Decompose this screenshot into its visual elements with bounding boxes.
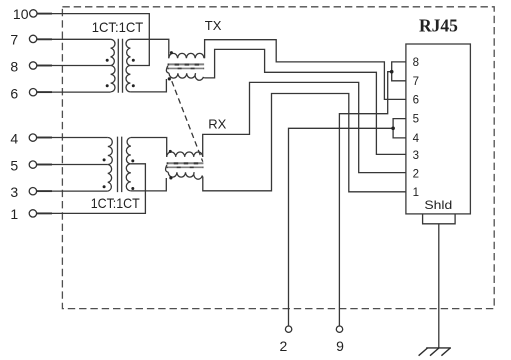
pin 3 terminal xyxy=(29,188,36,195)
svg-text:2: 2 xyxy=(280,338,288,354)
pin 10 terminal xyxy=(30,10,37,17)
wire pin4 to T2 left top xyxy=(36,137,107,139)
choke RX bottom polarity dot xyxy=(169,176,172,179)
wire TX top winding to RJ45 pin6 xyxy=(205,40,406,100)
svg-text:6: 6 xyxy=(413,95,419,107)
transformer T2 left winding xyxy=(108,138,113,192)
choke RX top polarity dot xyxy=(169,150,172,153)
svg-text:2: 2 xyxy=(413,169,419,181)
wire pin6 lead thick segment xyxy=(37,91,52,93)
svg-text:1: 1 xyxy=(10,206,18,222)
svg-text:TX: TX xyxy=(205,18,222,33)
pin 2 terminal xyxy=(285,326,291,332)
wire pin7 to T1 left top xyxy=(37,38,111,40)
transformer T1 right winding xyxy=(126,39,130,92)
choke TX core upper line xyxy=(168,63,205,65)
junction dot 4/5 bracket xyxy=(391,127,395,131)
pin 8 terminal xyxy=(29,62,36,69)
wire T1 right bottom to TX choke bottom xyxy=(130,79,166,92)
transformer T2 core xyxy=(118,137,122,193)
svg-text:8: 8 xyxy=(10,58,18,74)
transformer T2 right polarity dot lower xyxy=(131,187,134,190)
svg-text:9: 9 xyxy=(336,338,344,354)
transformer T2 left polarity dot upper xyxy=(103,158,106,161)
choke TX core lower line xyxy=(168,67,205,69)
wire pin6 to T1 left bottom xyxy=(37,91,111,93)
wire pin8 to T1 left center-tap xyxy=(37,65,111,67)
wire pin3 to T2 left bottom xyxy=(36,190,107,192)
pin 5 terminal xyxy=(29,161,36,168)
svg-text:3: 3 xyxy=(413,150,419,162)
choke RX core lower line dash xyxy=(167,166,204,168)
module dashed outline xyxy=(62,7,494,309)
svg-text:7: 7 xyxy=(413,76,419,88)
chassis ground xyxy=(419,348,451,356)
pin 7 terminal xyxy=(29,35,36,42)
RJ45 shield tab xyxy=(423,214,456,224)
wire T2 right bottom to RX choke bottom xyxy=(131,178,167,191)
wire bracket RJ45 pins 4 and 5 xyxy=(393,119,406,138)
wire T2 right top to RX choke xyxy=(131,138,167,157)
wire pin9 to RJ45 7/8 junction xyxy=(339,72,391,326)
choke TX bottom polarity dot xyxy=(168,77,171,80)
svg-text:5: 5 xyxy=(413,114,419,126)
wire pin7 lead thick segment xyxy=(37,38,52,40)
svg-text:Shld: Shld xyxy=(424,198,452,212)
pin 4 terminal xyxy=(29,134,36,141)
svg-text:8: 8 xyxy=(413,57,419,69)
svg-text:10: 10 xyxy=(13,6,29,22)
connector RJ45 body xyxy=(406,44,471,214)
wire shield to chassis ground xyxy=(438,224,440,348)
wire pin10 lead thick segment xyxy=(37,13,52,15)
svg-text:4: 4 xyxy=(10,131,18,147)
choke RX bottom winding hook xyxy=(166,165,169,172)
svg-text:7: 7 xyxy=(10,31,18,47)
choke TX bottom winding xyxy=(169,73,204,80)
svg-text:RX: RX xyxy=(208,117,226,132)
wire pin1 lead thick segment xyxy=(36,212,52,214)
junction dot 7/8 bracket xyxy=(390,70,394,74)
transformer T1 right polarity dot lower xyxy=(132,84,135,87)
wire RX bottom winding to RJ45 pin1 xyxy=(203,94,406,192)
wire pin1 to T2 right center-tap xyxy=(36,164,145,214)
wire pin2 to RJ45 4/5 junction xyxy=(289,128,394,326)
svg-text:5: 5 xyxy=(10,157,18,173)
choke TX bottom winding hook xyxy=(166,66,169,73)
svg-text:6: 6 xyxy=(10,85,18,101)
transformer T1 right polarity dot upper xyxy=(132,59,135,62)
pin 1 terminal xyxy=(29,210,36,217)
svg-text:1: 1 xyxy=(413,187,419,199)
choke TX core upper line dashes xyxy=(168,64,205,66)
choke RX core upper line dashes xyxy=(167,162,204,164)
wire RX top winding to RJ45 pin2 xyxy=(203,82,406,172)
wire bracket RJ45 pins 7 and 8 xyxy=(392,62,406,81)
choke RX bottom winding xyxy=(168,172,203,179)
wire pin4 lead thick segment xyxy=(36,137,52,139)
choke RX top winding xyxy=(167,152,203,157)
choke RX core upper line xyxy=(167,162,204,164)
wire pin5 to T2 left center-tap xyxy=(36,164,107,166)
svg-text:4: 4 xyxy=(413,133,420,145)
pin 6 terminal xyxy=(29,89,36,96)
wire pin3 lead thick segment xyxy=(36,190,52,192)
transformer T1 left winding xyxy=(111,39,115,92)
svg-text:3: 3 xyxy=(10,184,18,200)
transformer T1 left polarity dot upper xyxy=(106,59,109,62)
transformer T2 right polarity dot upper xyxy=(131,159,134,162)
transformer T2 right winding xyxy=(126,138,131,191)
svg-text:1CT:1CT: 1CT:1CT xyxy=(91,195,140,211)
wire T1 right top to TX choke xyxy=(130,39,168,58)
dashed coupling line TX to RX core xyxy=(172,81,203,162)
transformer T1 left polarity dot lower xyxy=(106,84,109,87)
wire TX bottom winding to RJ45 pin3 xyxy=(204,49,406,154)
svg-text:RJ45: RJ45 xyxy=(419,16,458,36)
wire pin5 lead thick segment xyxy=(36,164,52,166)
choke RX core lower line xyxy=(167,166,204,168)
wire pin8 lead thick segment xyxy=(37,65,52,67)
choke TX top winding xyxy=(169,53,204,58)
choke TX top polarity dot xyxy=(170,51,173,54)
svg-text:1CT:1CT: 1CT:1CT xyxy=(92,19,144,35)
wire pin10 to T1 right center-tap xyxy=(37,14,150,66)
transformer T1 core xyxy=(118,39,122,93)
choke TX core lower line dash xyxy=(168,67,205,69)
transformer T2 left polarity dot lower xyxy=(103,185,106,188)
pin 9 terminal xyxy=(336,326,342,332)
